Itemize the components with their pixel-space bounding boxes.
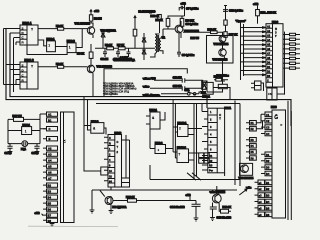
svg-text:1: 1 [25,130,27,134]
svg-text:ВЫХ.ВИДЕО: ВЫХ.ВИДЕО [139,10,156,14]
wire bus pair into DD6 [241,23,244,81]
button SB1 [161,92,199,95]
svg-text:Т: Т [179,127,181,131]
svg-text:R13 75: R13 75 [191,36,200,40]
transistor VT4 [175,25,183,33]
svg-text:С3: С3 [266,126,270,130]
resistor R5 [89,52,93,58]
svg-text:С15 10х16В: С15 10х16В [217,216,232,220]
wire to T1 [135,48,155,60]
svg-text:ИЗ КД503А: ИЗ КД503А [113,205,127,209]
power +5V mid [184,5,186,16]
svg-text:В1: В1 [266,181,270,185]
svg-text:С12 0,047м: С12 0,047м [229,9,243,13]
resistor R7 [118,47,125,50]
svg-text:B2: B2 [48,184,52,188]
osc block G1 [22,127,32,135]
svg-text:F: F [281,123,283,127]
svg-text:ч.Зв: ч.Зв [246,187,252,190]
wire DD6 right bus [284,32,286,95]
svg-text:VD6 КД503А: VD6 КД503А [103,92,118,96]
svg-text:D2: D2 [266,159,270,163]
svg-text:0,047М: 0,047М [120,56,128,59]
svg-text:1: 1 [205,85,207,89]
svg-text:С9 0,047м: С9 0,047м [182,53,195,57]
svg-text:B8: B8 [48,219,52,223]
ground X1 bottom [50,223,55,227]
connector XS1 [202,81,207,89]
resistor group [199,153,204,158]
DD6 output lines with resistors [283,33,300,69]
wire R3 to VT2 [64,66,88,68]
wire under gates [27,45,67,55]
svg-text:В6: В6 [266,213,270,217]
flip-flop DD1.1 [20,25,38,45]
capacitor C4 [127,48,131,57]
svg-text:B5: B5 [48,202,52,206]
resistor R9 vert [180,18,184,26]
wire DD9.1 out [213,88,230,100]
connector X2 inner cells [258,180,265,217]
transistor VT3a [219,35,226,42]
svg-text:R7 1К: R7 1К [117,43,124,47]
svg-text:С: С [219,113,221,117]
wire bottom rail 2 [150,165,240,180]
connector X2 body [272,110,286,218]
gate DD3.2 [91,123,104,134]
svg-text:R18...R25 1К: R18...R25 1К [261,10,277,14]
wire mid horizontal low [96,103,240,105]
gate DD2.1 [47,41,56,52]
connector X1 body [61,112,75,223]
wire stubs DD1.2 left pins [6,65,20,93]
resistor R18-R25 [256,10,260,16]
DD11 stubs [202,112,208,171]
transistor VT7 [212,194,221,203]
svg-text:В4: В4 [266,200,270,204]
wire X2 right bus [288,101,291,220]
svg-text:В2: В2 [266,187,270,191]
svg-text:D4: D4 [266,172,270,176]
ROM DD6 [266,24,283,87]
wire bottom rail [111,187,237,190]
gate DD7.1 [255,81,262,90]
left cells stubs [246,114,263,158]
ground under C2 [35,152,40,155]
wire to R28 [111,201,128,205]
connector X1 stubs [42,129,47,221]
capacitor C7 [179,6,184,11]
svg-text:DD9.1: DD9.1 [203,95,211,99]
capacitor C1 [7,144,12,152]
wire left fourth bus [4,29,11,85]
svg-text:DD11: DD11 [225,106,232,110]
wire osc loop [8,114,47,144]
wire into DD3.2 [84,120,91,131]
wire DD1.1 pin to DD2.1 [38,40,47,46]
svg-text:A4: A4 [48,159,52,163]
ground DD10 b [109,196,114,214]
svg-text:+5В: +5В [181,1,186,5]
transformer T1 coil1 [155,34,157,53]
resistor R2 [58,27,64,30]
svg-text:C: C [267,80,269,83]
gate DD12.2 [177,149,189,163]
svg-text:A1: A1 [48,113,52,117]
ground DD10 a [90,190,111,213]
svg-text:CS: CS [268,92,272,96]
svg-text:C: C [49,127,51,131]
svg-text:B1: B1 [48,118,52,122]
X2 stubs [255,114,266,214]
text block diode list [103,82,137,96]
wire stubs DD1.1 left pins [6,29,20,46]
wire DD1.2 Q to R3 [38,66,58,68]
ground under C14 [194,218,199,221]
svg-text:VT3 КТ315Б: VT3 КТ315Б [214,42,229,46]
svg-text:A2: A2 [48,147,52,151]
ground under C15 [210,218,215,221]
svg-text:С4: С4 [266,132,270,136]
resistor R16 [218,84,227,88]
svg-text:A6: A6 [48,171,52,175]
svg-text:"Время": "Время" [236,20,247,23]
svg-text:VT2 КТ361Б: VT2 КТ361Б [97,65,113,69]
svg-text:R6 1К: R6 1К [105,43,112,47]
gate DD3.1 [150,112,160,129]
svg-text:С15 1М: С15 1М [173,85,182,88]
transistor VT5a [219,49,226,56]
output arrow sound [239,189,247,195]
svg-text:R17 1К: R17 1К [229,32,238,36]
resistor R27 [14,117,24,121]
svg-text:С: С [109,137,111,140]
svg-text:ч.Экс: ч.Экс [143,86,150,89]
transistor VT2 [87,65,94,72]
svg-text:A3: A3 [48,153,52,157]
wire osc chain [95,47,135,49]
video out arrow [134,16,136,29]
module outline box [104,69,187,97]
diode VD7 [142,33,146,48]
svg-text:П: П [275,28,277,31]
gate DD12.1 [178,125,189,137]
wire DD2.1 out [55,46,67,48]
DD6 control box [267,88,277,100]
wire mid verticals [84,97,88,123]
svg-text:B: B [49,137,51,141]
svg-text:С2: С2 [266,119,270,123]
svg-text:R: R [109,143,111,146]
wire left inner bus [10,33,207,108]
svg-text:С2 1М: С2 1М [101,57,109,61]
svg-text:С8 0,047м: С8 0,047м [186,22,199,26]
DD10 left stubs [104,137,108,181]
wire SB1 to DD9.1 [199,92,203,94]
svg-text:G̃: G̃ [274,114,278,121]
svg-text:Т: Т [178,153,180,157]
capacitor C12 [223,10,228,12]
svg-text:B4: B4 [48,196,52,200]
svg-text:С14 10х16В: С14 10х16В [170,205,185,209]
wire VT2 collector to bus [92,77,94,97]
svg-text:S: S [22,26,24,30]
wire DD6 ctrl [271,87,285,100]
transistor VD-stage [105,197,113,205]
transistor VT6 box [240,163,253,175]
svg-text:R8 1К: R8 1К [156,18,163,22]
svg-text:VT1 КТ315Б: VT1 КТ315Б [75,21,91,25]
svg-text:X1: X1 [63,140,67,144]
wire DD10 right bus [122,135,130,178]
svg-text:D3: D3 [266,166,270,170]
svg-text:1: 1 [48,44,50,48]
svg-text:DD3.1: DD3.1 [150,108,158,112]
svg-text:С: С [117,141,119,144]
svg-text:ч.СИ «Время»: ч.СИ «Время» [143,94,161,97]
connector X1 pin column [47,112,58,223]
svg-text:D1: D1 [266,153,270,157]
wire module out [202,63,223,92]
resistor R17 [224,32,227,38]
svg-text:+5В: +5В [186,193,191,197]
flip-flop DD1.2 [20,62,38,89]
transistor VT1 [87,27,94,34]
svg-text:+5В: +5В [94,9,99,13]
gate B4 [155,145,166,154]
wire diagonals [187,173,201,180]
svg-text:ЧАСТОТА КВАРЦА: ЧАСТОТА КВАРЦА [113,59,135,62]
svg-text:В5: В5 [266,206,270,210]
wire T1 to VT4 base [163,29,175,38]
wire R16 to XS1 [206,89,208,92]
counter DD10 [108,135,122,188]
capacitor C15 el [210,203,217,218]
transformer T1 coil2 [159,38,161,51]
resistor R26 [216,78,222,81]
svg-text:ч.Зв КТ315Б: ч.Зв КТ315Б [210,190,226,194]
ground under C1 [8,152,13,155]
transformer T1 core [157,35,158,52]
wire R2 to VT1 [64,28,88,30]
wire mid verticals right [173,100,240,186]
svg-text:ZQ1: ZQ1 [21,148,26,151]
svg-text:R3: R3 [209,164,213,168]
svg-text:A7: A7 [48,176,52,180]
module box VT3 [207,36,234,64]
wire with capacitor C15 [150,86,203,90]
diode VD6 [101,29,105,48]
wire left third bus [13,38,15,75]
svg-text:В3: В3 [266,194,270,198]
wire left outer bus [6,28,291,126]
resistor R28 [128,199,137,202]
wire DD3.2 out [104,128,106,135]
resistor R10 [158,15,162,20]
svg-text:+5В: +5В [35,211,40,215]
connector X2 pin cells [265,112,272,217]
svg-text:SB1: SB1 [185,89,190,92]
svg-text:A5: A5 [48,165,52,169]
svg-text:B3: B3 [48,190,52,194]
wire VT4 emitter down [178,33,180,52]
capacitor C2 [34,144,39,152]
capacitor C14 el [192,201,201,219]
svg-text:С14 1М: С14 1М [173,77,182,80]
capacitor C2 [103,48,107,57]
wire R12 [183,32,223,35]
left small cells column [250,121,257,161]
wire R5 to VT2 [90,44,92,65]
resistor R3 [58,65,64,68]
capacitor C3 [116,50,120,57]
power +5V top [90,10,92,15]
antenna chain C12 [224,6,227,21]
wire DD12.1 pins [173,127,202,135]
svg-text:DD8: DD8 [271,105,277,109]
wire DD12.2 pins [173,152,199,160]
svg-text:С1: С1 [266,113,270,117]
svg-text:VT5 КТ361Б: VT5 КТ361Б [213,58,228,62]
inductor L1 [224,20,227,25]
svg-text:1: 1 [69,46,71,50]
wire DD1.1 Q to R2 [38,28,58,30]
gate DD2.2 [67,43,76,53]
wire VT3 pair [223,42,225,63]
DD6 pin rows [266,28,273,82]
capacitor C9 [177,52,181,57]
svg-text:R9 82К: R9 82К [186,18,195,22]
wire VT1 collector up [91,21,93,26]
connector X1 pin glyphs [48,113,52,223]
gate box B5 [101,167,108,175]
wire with capacitor C14 [154,78,203,82]
scan artifact bottom edge [28,225,118,227]
mcu DD11 [208,108,225,173]
svg-text:R4 1М: R4 1М [94,16,102,20]
DD10 bottom cells [122,178,130,187]
wire DD2.2 out up [76,29,82,48]
wire T1 top to R10 [150,34,163,57]
resistor R29 [221,209,229,213]
svg-text:R29 1К: R29 1К [223,205,232,209]
DD6 input arrows [241,27,267,29]
inductor L (vert) [133,29,137,36]
resistor R4 [89,15,92,21]
wire B4 pins [150,129,173,149]
svg-text:S: S [22,63,24,67]
crystal ZQ1 [8,143,40,145]
resistor R8 vert [166,18,170,26]
wire R28 right [137,200,197,202]
resistor R6 [107,47,114,50]
diode VD8 [142,48,146,58]
gate DD9.1 [203,82,214,94]
svg-text:VT6 КТ315Б: VT6 КТ315Б [239,176,254,180]
svg-text:С7 0,047м: С7 0,047м [186,6,199,10]
svg-text:R5 1К: R5 1К [77,52,84,56]
wire DD3.1 pins [146,112,165,124]
resistor R12 [211,31,218,34]
svg-text:B7: B7 [48,214,52,218]
svg-text:B6: B6 [48,208,52,212]
